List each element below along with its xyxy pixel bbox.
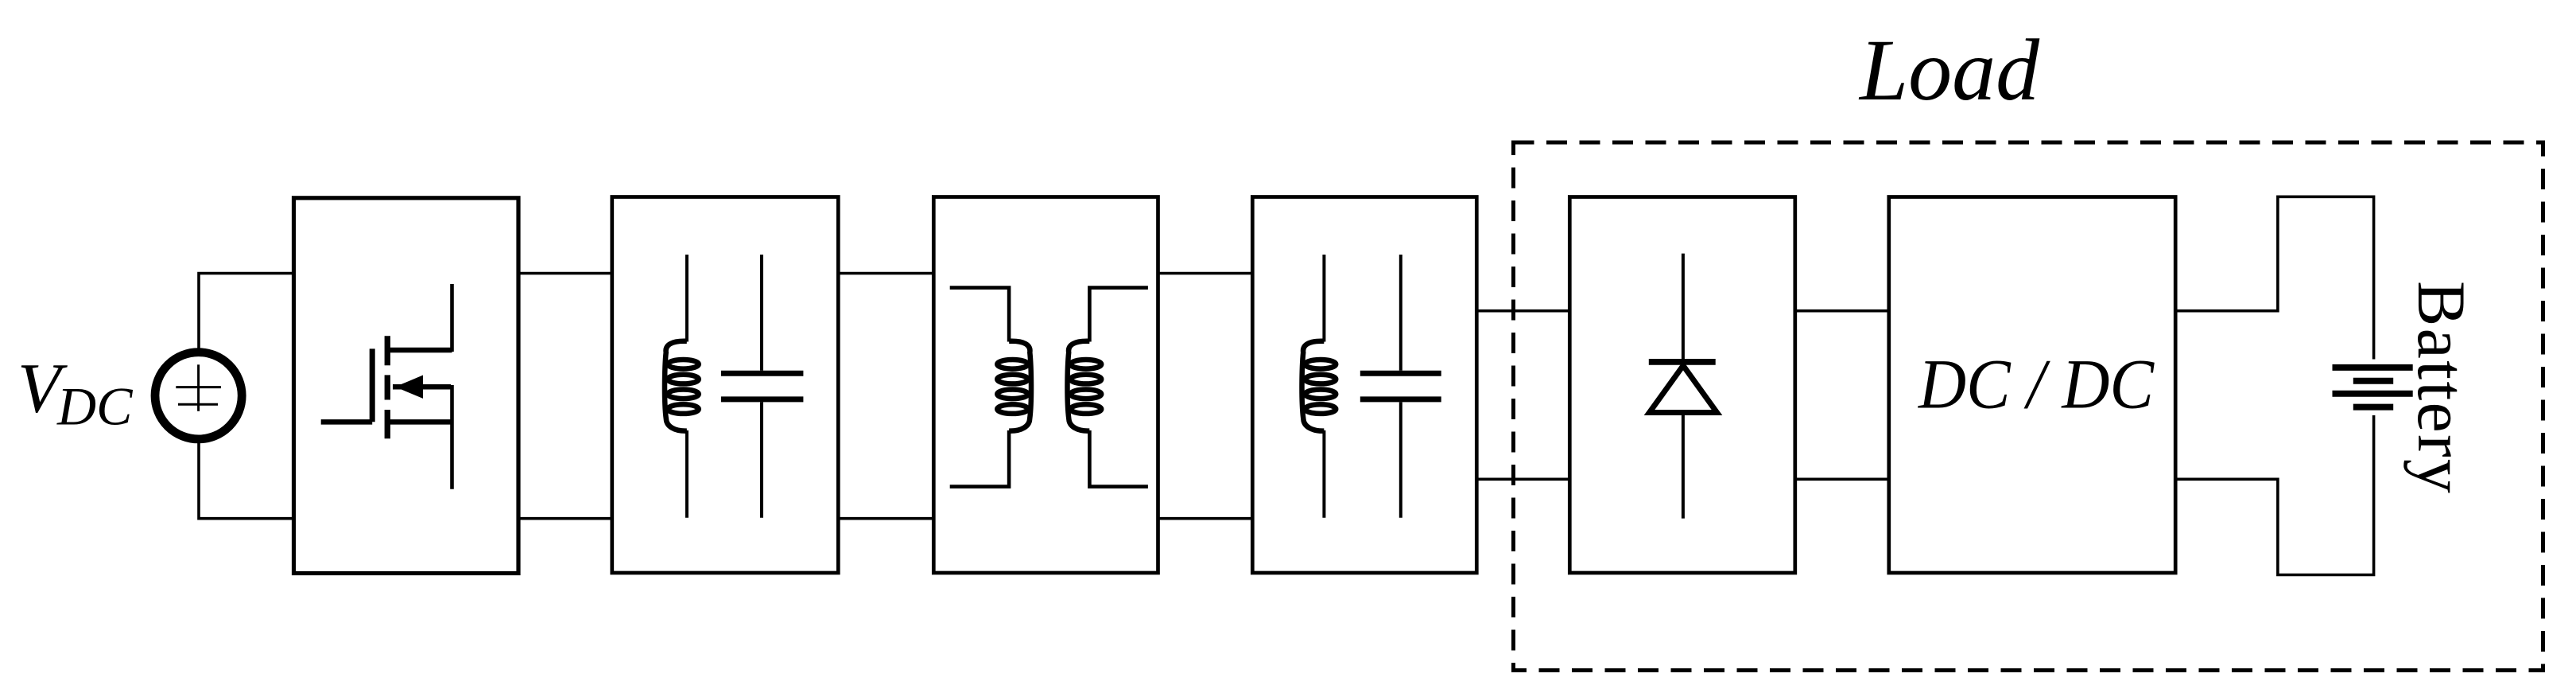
svg-text:DC: DC xyxy=(56,376,133,437)
svg-text:Battery: Battery xyxy=(2403,281,2480,495)
svg-text:DC / DC: DC / DC xyxy=(1918,346,2155,424)
svg-text:Load: Load xyxy=(1858,21,2040,119)
